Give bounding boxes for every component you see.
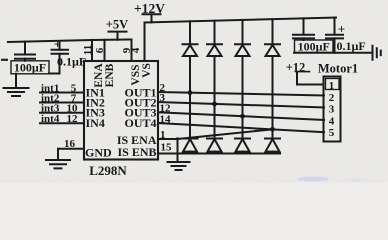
- wire OUT4: [158, 123, 324, 132]
- wire C3 bottom: [303, 38, 305, 40]
- junction dot col3-OUT3: [240, 114, 245, 119]
- ground G1: [4, 74, 29, 96]
- wire sense bus: [158, 129, 273, 139]
- capacitor C4 plates: [326, 35, 343, 39]
- diode D2 column: [214, 21, 216, 154]
- wire GND pin16: [58, 148, 84, 150]
- ground G3: [46, 149, 70, 169]
- wire int2: [40, 102, 84, 104]
- connector J1 pin1 box: [326, 79, 340, 90]
- diode D5 bottom: [183, 138, 198, 140]
- scan edge artifact left: [1, 59, 8, 61]
- wire OUT2: [158, 102, 324, 108]
- junction dot col2-OUT2: [212, 102, 217, 107]
- +12 net label underline: [296, 71, 310, 73]
- wire C2 bottom: [59, 54, 61, 74]
- junction dot col4-OUT4: [270, 127, 275, 132]
- wire C1 to box: [24, 59, 26, 61]
- wire pin9: [131, 40, 133, 62]
- capacitor C3 label box: [295, 40, 334, 53]
- diode D6 bottom: [207, 138, 222, 140]
- wire OUT1: [158, 92, 324, 96]
- capacitor C2 0.1uF stub: [59, 41, 61, 50]
- wire int3: [40, 112, 84, 114]
- wire pin6: [104, 40, 106, 61]
- power +12V bar: [143, 14, 161, 22]
- wire IS ENB pin15: [158, 138, 178, 153]
- ground G2: [168, 162, 190, 170]
- capacitor C1 label box: [11, 61, 49, 74]
- wire +12 to connector pin1: [297, 72, 324, 84]
- diode D7 bottom: [235, 138, 250, 140]
- scan noise overlay: [0, 0, 1, 1]
- capacitor C4 0.1uF stub: [334, 18, 336, 35]
- faint blue smudge artifact: [297, 177, 329, 182]
- wire right gnd bus: [294, 52, 373, 54]
- diode D1 top: [183, 43, 198, 45]
- wire box to C2 bottom: [49, 73, 60, 75]
- diode D3 top: [235, 43, 250, 45]
- capacitor C2 plates: [52, 50, 69, 54]
- diode D4 column: [272, 19, 274, 153]
- capacitor C3 plates: [293, 35, 314, 39]
- wire pin11: [91, 40, 93, 61]
- diode D8 bottom: [265, 138, 280, 140]
- diode D4 top: [265, 43, 280, 45]
- wire OUT3: [158, 112, 324, 120]
- wire +12V bus: [145, 18, 337, 23]
- diode D3 column: [242, 20, 244, 154]
- capacitor C1 100uF stub: [24, 42, 26, 55]
- capacitor C1 plates: [15, 55, 35, 59]
- wire int4: [40, 122, 84, 124]
- op-amp U1 L298N body: [84, 61, 158, 160]
- wire bottom gnd bus: [178, 153, 281, 155]
- diode D1 column: [189, 21, 191, 153]
- diode D2 top: [207, 43, 222, 45]
- connector J1 Motor1 body: [324, 77, 341, 142]
- wire int1: [40, 92, 84, 94]
- wire C4 bottom: [334, 38, 336, 52]
- wire top-left bus: [8, 40, 132, 43]
- junction dot col1-OUT1: [188, 90, 193, 95]
- wire sense down to ground bus: [177, 154, 179, 162]
- ground G4 rotated: [373, 46, 381, 60]
- wire pin4 from +12V: [144, 23, 146, 62]
- capacitor C3 100uF stub: [303, 18, 305, 34]
- power +5V bar: [109, 32, 127, 40]
